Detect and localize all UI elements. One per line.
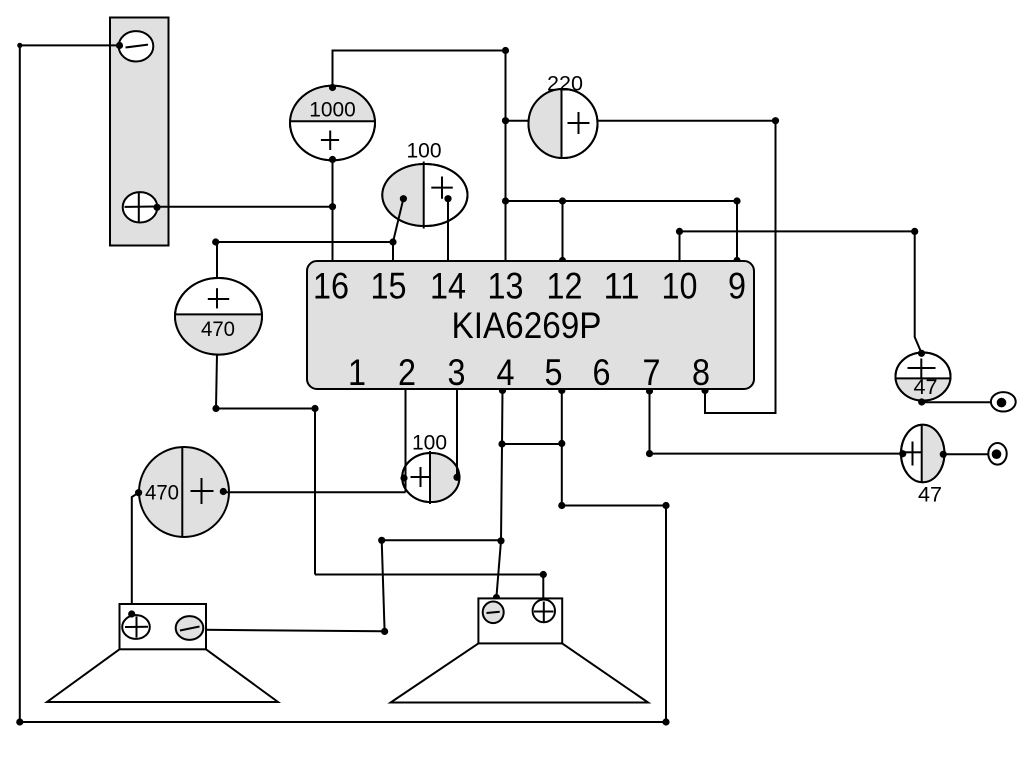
capacitor C8 47uF <box>901 425 944 507</box>
node bridge right <box>558 440 565 447</box>
svg-text:1000: 1000 <box>309 98 356 122</box>
wire C3 right lead to IC pin 14 <box>447 199 449 261</box>
speaker LS1 plus terminal <box>122 615 150 639</box>
wire IC pin 3 lead <box>456 389 458 477</box>
wire rail y574 to right speaker plus <box>315 574 543 576</box>
wire C2 left lead <box>506 120 529 122</box>
wire IC pin 10 up and right to C7 <box>680 231 922 353</box>
wire down x666 to bottom rail <box>665 506 667 723</box>
node C5 right <box>220 488 227 495</box>
wire to IC pin 13 <box>505 201 507 261</box>
node rail-201 pin9 <box>733 197 740 204</box>
C8 plus mark <box>905 451 921 453</box>
svg-text:7: 7 <box>643 352 661 393</box>
svg-text:4: 4 <box>497 352 515 393</box>
node rail-505 right <box>662 502 669 509</box>
speaker LS2 plus terminal <box>533 600 555 623</box>
svg-text:3: 3 <box>448 352 466 393</box>
svg-text:100: 100 <box>407 139 442 163</box>
battery negative terminal <box>119 31 154 61</box>
node C1 bottom <box>329 156 336 163</box>
node LS1 plus <box>128 610 135 617</box>
node pin4 stub <box>499 387 506 394</box>
node C8 left <box>899 450 906 457</box>
node pin5 bottom <box>558 502 565 509</box>
node pin 12 <box>559 257 566 264</box>
wire rail y505 <box>562 505 666 507</box>
wire IC pin 4 lead down <box>501 389 503 541</box>
node pin5 stub <box>558 387 565 394</box>
wire C4 top lead <box>216 242 218 279</box>
svg-text:11: 11 <box>604 266 640 307</box>
node C1 top <box>329 84 336 91</box>
wire C4 bottom lead down to rail <box>216 354 217 409</box>
wire to IC pin 9 <box>736 201 738 261</box>
node rail-242 left <box>212 238 219 245</box>
wire battery plus to C1 bottom node <box>157 206 333 208</box>
node x382 bottom <box>381 628 388 635</box>
node left rail corner top <box>17 43 22 48</box>
node rail-201 pin12 <box>559 197 566 204</box>
node C3 left <box>400 195 407 202</box>
wire C7 bottom lead to jack J1 <box>922 401 996 403</box>
wire IC pin 5 lead down <box>561 389 563 506</box>
svg-text:47: 47 <box>914 375 938 399</box>
node battery plus <box>153 204 160 211</box>
node pin4 bottom <box>497 537 504 544</box>
wire C2 right lead to pin8 riser <box>598 120 776 122</box>
svg-text:13: 13 <box>488 266 524 307</box>
wire rail y540 left <box>382 539 501 541</box>
wire pin7 to C8 <box>650 453 903 455</box>
IC U1 KIA6269P <box>307 261 754 393</box>
node C6 left <box>400 474 407 481</box>
wire IC pin 7 lead down <box>649 389 651 454</box>
svg-text:1: 1 <box>348 352 366 393</box>
wire rail y242 C4 top to pin15 <box>216 241 393 243</box>
node C6 right <box>453 474 460 481</box>
node rail-201 left <box>502 197 509 204</box>
C1 plus mark <box>321 139 339 141</box>
svg-text:470: 470 <box>201 317 235 341</box>
svg-text:9: 9 <box>728 266 746 307</box>
svg-text:KIA6269P: KIA6269P <box>452 305 602 346</box>
C4 plus mark <box>208 298 229 300</box>
svg-text:6: 6 <box>593 352 611 393</box>
battery BT1 body <box>110 18 169 246</box>
wire C1 top lead up and over to pin13 rail <box>333 51 506 202</box>
capacitor C2 220uF <box>529 72 598 159</box>
node C8 right <box>940 451 947 458</box>
wire battery minus to left rail, left rail down, bottom rail <box>20 45 666 722</box>
svg-text:470: 470 <box>145 481 179 505</box>
C5 plus mark <box>191 490 214 492</box>
C3 plus mark <box>431 187 453 189</box>
node C5 left <box>135 489 142 496</box>
node rail-242 pin15 <box>389 238 396 245</box>
node pin7 stub <box>646 387 653 394</box>
wire pin8 riser down and to IC pin 8 <box>705 121 776 413</box>
node C2 right corner <box>772 117 779 124</box>
wire C5 right lead to pin2 lead <box>223 491 405 493</box>
capacitor C4 470uF <box>175 278 262 355</box>
wire diagonal pin4 to right speaker minus <box>495 541 501 605</box>
wire C5 left lead down to left speaker plus <box>132 493 139 614</box>
battery positive terminal <box>123 192 158 223</box>
wire C1 bottom lead to IC pin 16 <box>332 160 334 261</box>
capacitor C7 47uF <box>896 353 951 401</box>
wire IC pin 2 lead <box>405 389 407 492</box>
svg-text:5: 5 <box>545 352 563 393</box>
node rail-408 left <box>212 405 219 412</box>
node rspk plus corner <box>540 571 547 578</box>
wire left speaker minus lead <box>203 630 385 632</box>
speaker LS1 body <box>120 604 207 649</box>
wire C3 left lead diagonal to pin15 node <box>393 199 403 242</box>
node bottom rail left corner <box>16 718 23 725</box>
node pin10 rail right corner <box>911 228 918 235</box>
node pin 8 stub <box>701 387 708 394</box>
connector J2 <box>988 443 1006 465</box>
node top rail corner <box>502 47 509 54</box>
svg-text:16: 16 <box>313 266 349 307</box>
speaker LS1 minus terminal <box>176 616 204 640</box>
capacitor C3 100uF <box>382 139 467 229</box>
wire down x382 <box>382 540 385 631</box>
node C7 bottom <box>918 398 925 405</box>
svg-text:47: 47 <box>918 483 942 507</box>
node pin7 bottom <box>646 450 653 457</box>
node C3 right <box>444 195 451 202</box>
wire down x315 <box>314 409 316 575</box>
speaker LS2 cone <box>391 643 648 702</box>
node pin4 mid <box>498 440 505 447</box>
wire rail y408 <box>216 408 315 410</box>
capacitor C5 470uF <box>139 447 229 537</box>
wire node rail y201 pin13 to pin9 <box>506 200 738 202</box>
node C2 left rail junction <box>502 117 509 124</box>
node bottom rail right end <box>662 718 669 725</box>
node battery minus <box>116 42 123 49</box>
node pin 9 <box>733 257 740 264</box>
svg-text:15: 15 <box>371 266 407 307</box>
node rail-540 left <box>378 537 385 544</box>
capacitor C1 1000uF <box>290 86 375 161</box>
C6 plus mark <box>411 476 431 478</box>
wire C8 right lead to jack J2 <box>943 453 992 455</box>
node right speaker minus top <box>493 594 500 601</box>
svg-text:14: 14 <box>430 266 466 307</box>
svg-text:10: 10 <box>662 266 698 307</box>
connector J1 <box>991 392 1016 411</box>
svg-text:100: 100 <box>412 431 447 455</box>
speaker LS1 cone <box>47 649 278 702</box>
speaker LS2 minus terminal <box>483 602 504 624</box>
node rail-408 right <box>311 405 318 412</box>
wire bridge pin4-pin5 <box>502 443 562 445</box>
wire to IC pin 15 <box>392 242 394 261</box>
capacitor C6 100uF <box>402 431 459 505</box>
node left speaker minus <box>199 626 206 633</box>
C7 plus mark <box>908 367 936 369</box>
svg-text:220: 220 <box>547 72 583 96</box>
svg-text:8: 8 <box>692 352 710 393</box>
speaker LS2 body <box>478 598 562 643</box>
node pin10 corner <box>676 228 683 235</box>
wire down to right speaker plus <box>542 575 544 601</box>
wire to IC pin 12 <box>562 201 564 261</box>
C2 plus mark <box>568 122 590 124</box>
svg-text:2: 2 <box>398 352 416 393</box>
node battery plus / C1 lead junction <box>329 203 336 210</box>
svg-text:12: 12 <box>547 266 583 307</box>
node C7 top <box>918 350 925 357</box>
